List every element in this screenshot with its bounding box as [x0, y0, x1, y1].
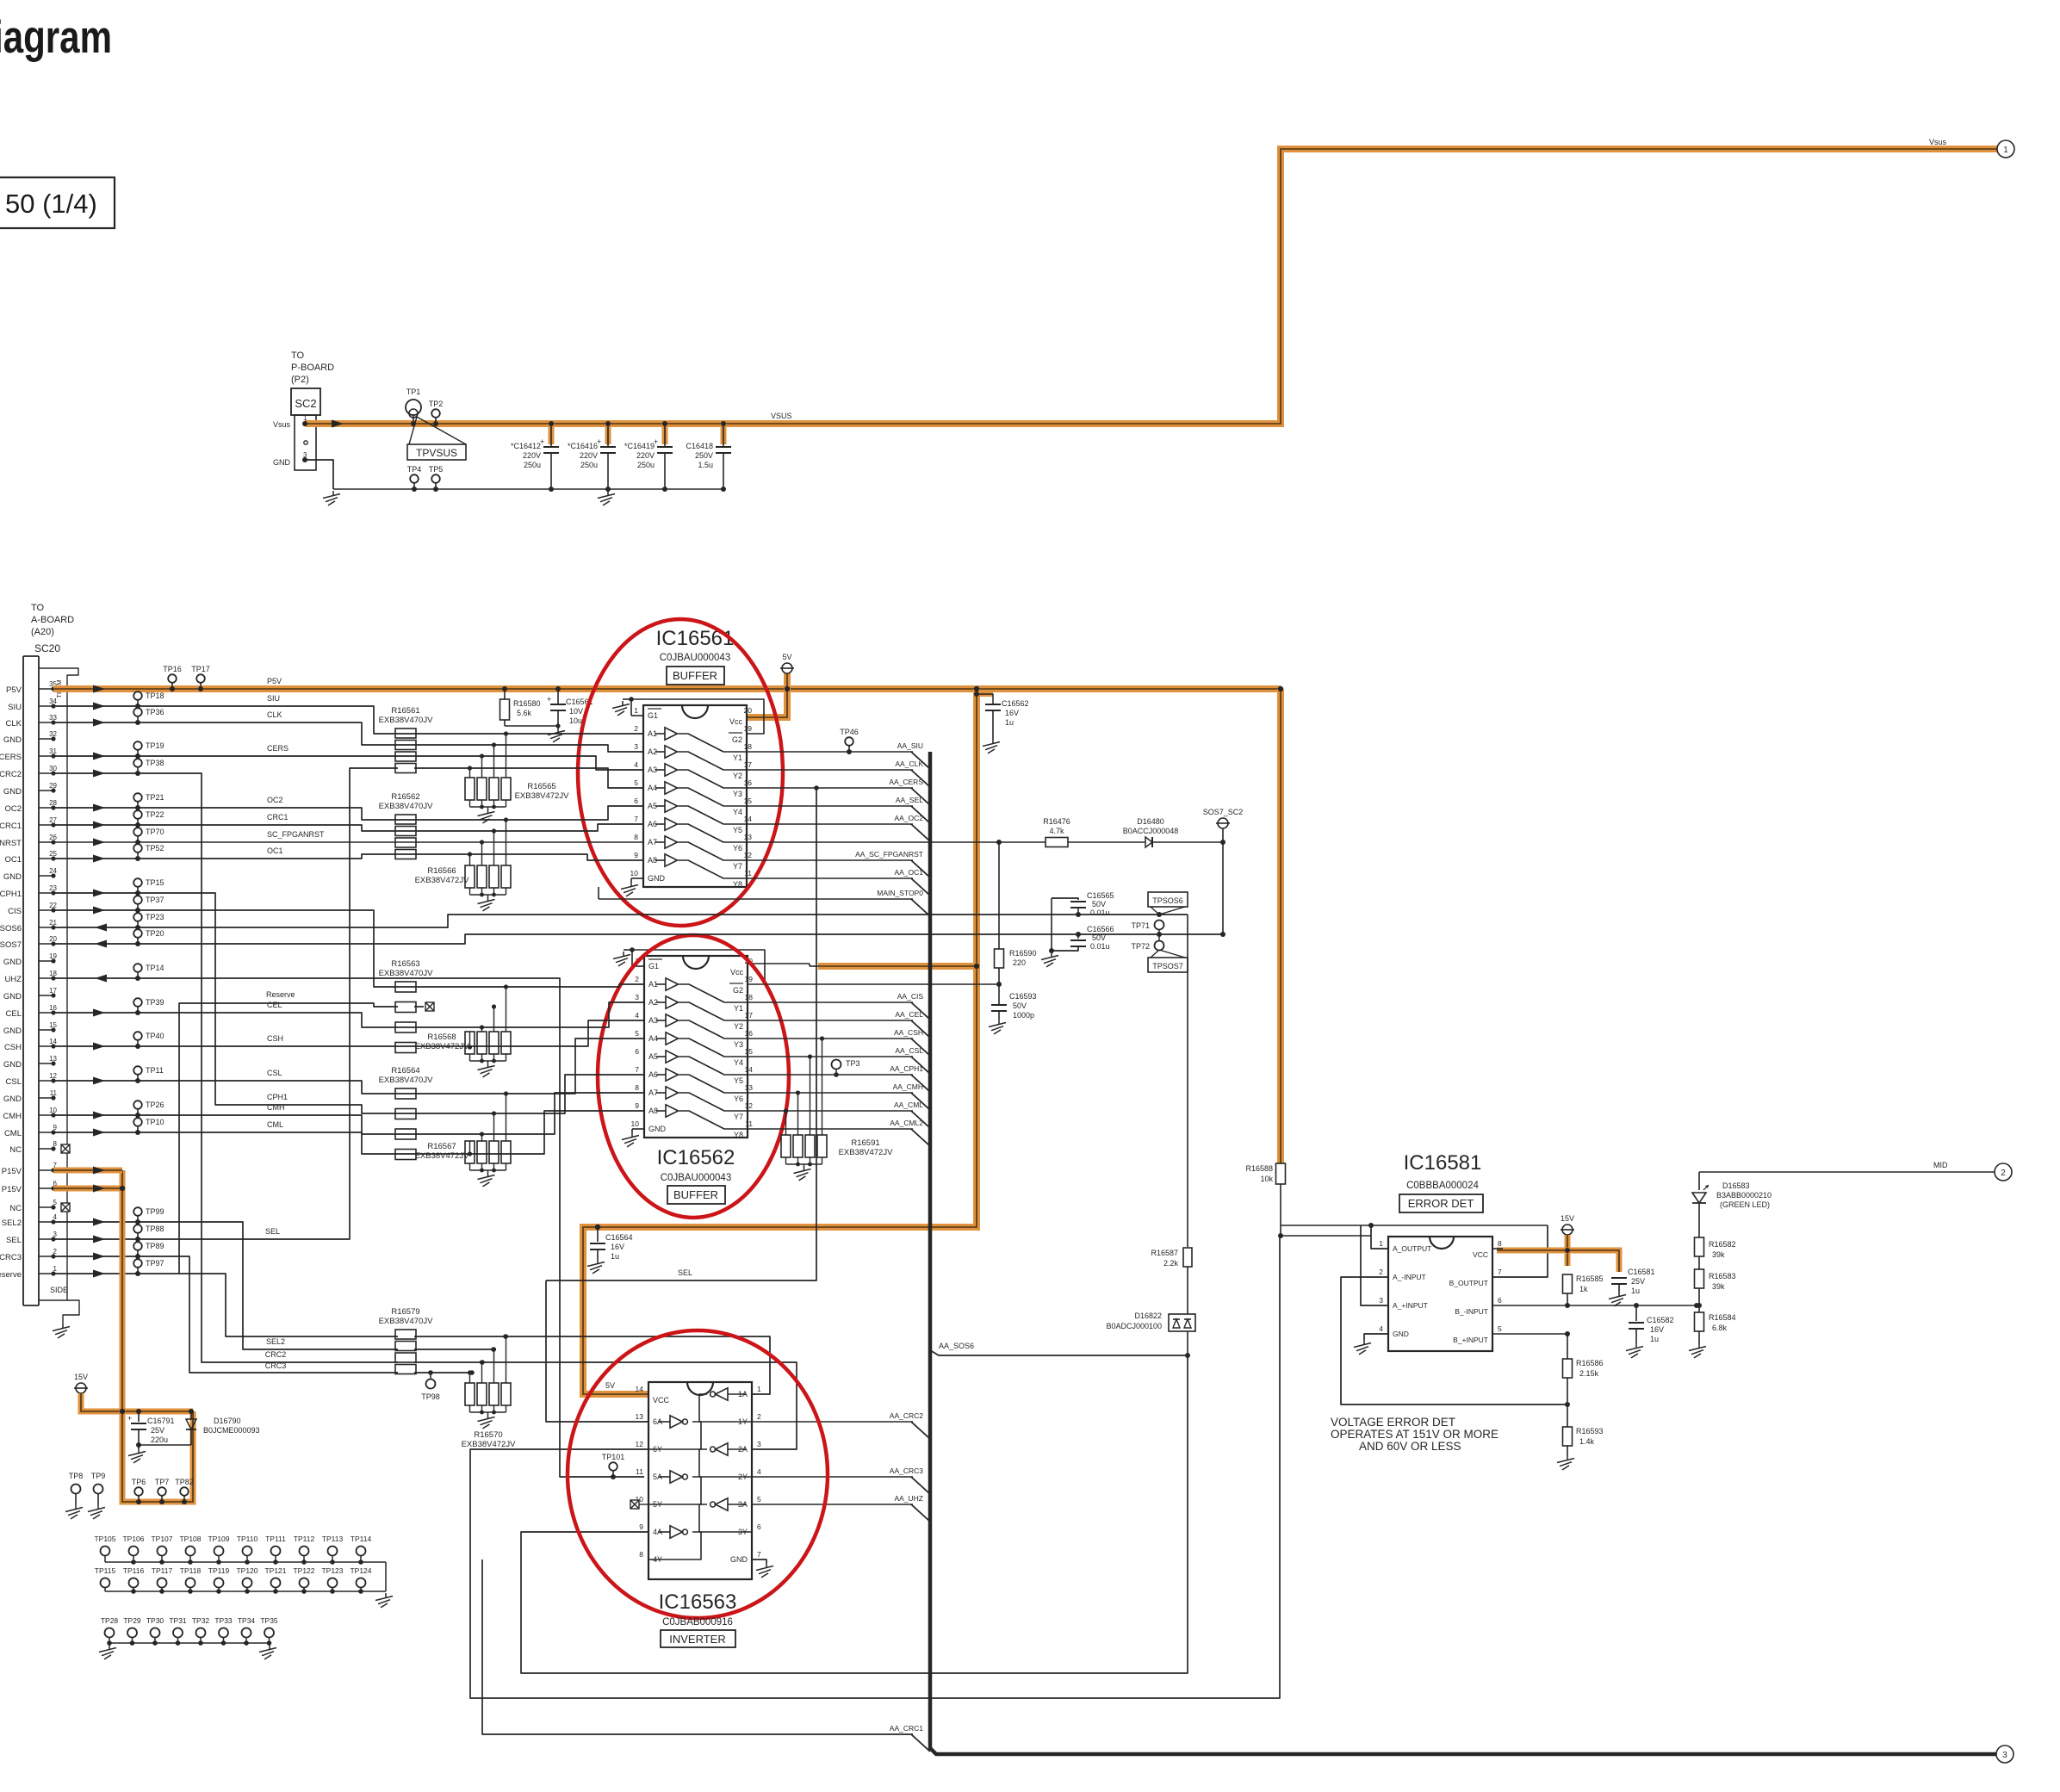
svg-text:CMH: CMH: [3, 1112, 22, 1121]
svg-text:TP112: TP112: [294, 1535, 315, 1543]
svg-text:15: 15: [744, 797, 753, 805]
ground: [62, 1324, 64, 1329]
op-amp IC16562 buffer IC: [644, 956, 748, 1138]
svg-text:CERS: CERS: [0, 753, 22, 762]
svg-text:2: 2: [635, 975, 639, 983]
svg-text:*C16412: *C16412: [511, 442, 541, 450]
svg-text:TPSOS7: TPSOS7: [1152, 962, 1183, 970]
svg-text:+: +: [547, 695, 551, 704]
test point TP2: [431, 409, 440, 418]
svg-text:(A20): (A20): [31, 627, 54, 637]
svg-text:2.15k: 2.15k: [1579, 1369, 1599, 1378]
svg-text:TP72: TP72: [1131, 942, 1150, 951]
wire bottom join: [139, 1444, 191, 1446]
svg-text:Y6: Y6: [734, 1094, 743, 1103]
wire to IC16581: [1281, 1235, 1371, 1237]
svg-text:R16590: R16590: [1009, 949, 1037, 958]
ground IC16563 pin7: [752, 1559, 766, 1563]
resistor array R16566: [465, 865, 475, 888]
svg-text:1: 1: [1379, 1239, 1383, 1248]
svg-text:AA_CERS: AA_CERS: [889, 778, 923, 786]
svg-text:13: 13: [745, 1083, 754, 1092]
svg-text:B_OUTPUT: B_OUTPUT: [1449, 1279, 1488, 1287]
svg-text:CLK: CLK: [6, 719, 22, 729]
X no-connect 5Y: [630, 1500, 639, 1509]
test point TP98: [426, 1380, 436, 1389]
test point TP52: [133, 844, 142, 853]
svg-text:7: 7: [1498, 1268, 1502, 1276]
svg-text:D16822: D16822: [1134, 1311, 1162, 1320]
svg-text:TP109: TP109: [208, 1535, 229, 1543]
svg-text:GND: GND: [3, 735, 22, 745]
svg-text:TP101: TP101: [602, 1453, 625, 1461]
svg-text:5V: 5V: [782, 653, 791, 661]
svg-text:P15V: P15V: [2, 1167, 22, 1176]
svg-text:EXB38V470JV: EXB38V470JV: [379, 1076, 434, 1085]
wire orange vertical to IC16562/IC16563: [583, 689, 977, 1394]
svg-text:CRC1: CRC1: [0, 822, 22, 831]
svg-text:A_OUTPUT: A_OUTPUT: [1393, 1244, 1431, 1253]
svg-text:Y7: Y7: [733, 862, 742, 871]
svg-text:R16586: R16586: [1576, 1359, 1604, 1367]
svg-text:2: 2: [1379, 1268, 1383, 1276]
wire AA_SOS6: [930, 1350, 1187, 1355]
svg-text:GND: GND: [273, 458, 291, 467]
svg-text:*C16416: *C16416: [568, 442, 598, 450]
wire r16588 net down: [470, 1236, 1280, 1698]
svg-text:AA_CPH1: AA_CPH1: [890, 1064, 923, 1073]
svg-text:AA_SEL: AA_SEL: [896, 796, 923, 804]
svg-text:3: 3: [634, 742, 638, 751]
svg-text:TP124: TP124: [350, 1566, 371, 1575]
svg-text:TP39: TP39: [146, 998, 164, 1007]
resistor R16583: [1695, 1269, 1704, 1288]
resistor R16476: [1046, 838, 1068, 847]
connector SC20 body: [22, 656, 24, 1305]
svg-text:TP89: TP89: [146, 1242, 164, 1250]
shape red circle IC16563: [568, 1330, 828, 1618]
svg-text:1: 1: [2003, 146, 2008, 155]
svg-text:1.4k: 1.4k: [1579, 1437, 1595, 1446]
svg-text:AA_OC2: AA_OC2: [894, 814, 923, 822]
shape red ellipse IC16561: [578, 619, 783, 926]
svg-text:TP113: TP113: [322, 1535, 344, 1543]
svg-text:C16566: C16566: [1087, 925, 1114, 933]
svg-text:TP97: TP97: [146, 1259, 164, 1268]
svg-text:MAIN_STOP0: MAIN_STOP0: [877, 889, 923, 897]
wire AA_OC2: [747, 823, 913, 825]
svg-text:R16593: R16593: [1576, 1427, 1604, 1435]
svg-text:SEL: SEL: [678, 1268, 692, 1277]
svg-text:SOS7: SOS7: [0, 940, 22, 950]
svg-text:TP21: TP21: [146, 793, 164, 802]
svg-text:5V: 5V: [605, 1381, 615, 1390]
svg-text:TP9: TP9: [91, 1472, 106, 1480]
wire SOS6: [53, 915, 1188, 927]
svg-text:5.6k: 5.6k: [517, 709, 532, 717]
svg-text:A-BOARD: A-BOARD: [31, 615, 74, 625]
svg-text:TP14: TP14: [146, 964, 164, 972]
resistor array R16570: [465, 1383, 475, 1405]
svg-text:25V: 25V: [151, 1426, 164, 1435]
wire AA_CSH: [748, 1038, 913, 1039]
svg-text:Y5: Y5: [734, 1076, 743, 1085]
capacitor C16791: [136, 1409, 141, 1414]
svg-text:CSH: CSH: [267, 1034, 283, 1043]
svg-text:Y8: Y8: [733, 880, 742, 889]
svg-text:B3ABB0000210: B3ABB0000210: [1716, 1191, 1771, 1200]
svg-text:220: 220: [1013, 958, 1026, 967]
wire MAIN_STOP0 stub: [598, 887, 599, 899]
svg-text:12: 12: [745, 1101, 754, 1110]
svg-text:7: 7: [757, 1550, 761, 1559]
wire IC16561 G1 frame: [631, 699, 764, 734]
wire P15V pins orange: [53, 1168, 122, 1174]
wire G2 frame IC16562 to C16593: [765, 983, 999, 985]
svg-text:R16564: R16564: [391, 1066, 419, 1076]
resistor array R16568: [465, 1032, 475, 1054]
svg-text:250u: 250u: [524, 461, 541, 469]
wire orange right vertical to R16588: [1277, 689, 1284, 1164]
svg-text:R16583: R16583: [1709, 1272, 1736, 1280]
svg-text:TP108: TP108: [179, 1535, 201, 1543]
svg-text:4: 4: [1379, 1324, 1383, 1333]
svg-text:TP30: TP30: [146, 1616, 164, 1625]
capacitor C16416: [605, 424, 611, 444]
svg-text:17: 17: [744, 760, 753, 769]
svg-text:C16791: C16791: [147, 1417, 175, 1425]
svg-text:TP82: TP82: [175, 1478, 194, 1486]
title box: [0, 177, 115, 228]
capacitor C16418: [721, 424, 727, 444]
svg-text:Y2: Y2: [734, 1022, 743, 1031]
test point TP20: [133, 929, 142, 938]
svg-text:AA_SC_FPGANRST: AA_SC_FPGANRST: [855, 850, 923, 859]
svg-text:11: 11: [744, 869, 752, 877]
resistor R16586: [1567, 1334, 1568, 1359]
svg-text:ERROR DET: ERROR DET: [1408, 1197, 1474, 1210]
svg-text:TP6: TP6: [132, 1478, 146, 1486]
wire R16566 stubs: [469, 854, 471, 865]
svg-text:AA_CEL: AA_CEL: [895, 1010, 923, 1019]
svg-text:P5V: P5V: [267, 677, 282, 685]
wire net1 after R16579: [414, 1336, 770, 1394]
svg-text:Vsus: Vsus: [273, 420, 291, 429]
svg-text:CIS: CIS: [8, 907, 22, 916]
resistor R16585: [1563, 1274, 1573, 1293]
wire AA_CRC2: [752, 1421, 913, 1423]
svg-text:2: 2: [634, 724, 638, 733]
diode D16822: [1169, 1314, 1195, 1331]
svg-text:220V: 220V: [580, 451, 598, 460]
resistor R16588: [1276, 1163, 1286, 1184]
test point TP39: [133, 998, 142, 1007]
svg-text:R16567: R16567: [427, 1142, 456, 1151]
svg-text:Vcc: Vcc: [730, 968, 744, 977]
svg-text:R16582: R16582: [1709, 1240, 1736, 1249]
ground: [332, 491, 334, 496]
svg-text:G2: G2: [732, 735, 742, 744]
svg-text:TP5: TP5: [429, 465, 444, 474]
svg-text:EXB38V470JV: EXB38V470JV: [379, 969, 434, 978]
inverter IC16563: [648, 1382, 752, 1579]
svg-text:7: 7: [634, 815, 638, 823]
svg-text:GND: GND: [3, 1026, 22, 1036]
svg-text:C0JBAB000916: C0JBAB000916: [662, 1617, 733, 1628]
svg-text:TP38: TP38: [146, 759, 164, 767]
svg-text:15: 15: [745, 1047, 754, 1056]
wire P5V orange rail: [53, 685, 1281, 692]
test point TP16: [168, 674, 177, 683]
svg-text:1.5u: 1.5u: [698, 461, 713, 469]
wire R16565 stubs: [469, 768, 471, 778]
svg-text:MID: MID: [1933, 1161, 1948, 1169]
svg-text:B0ACCJ000048: B0ACCJ000048: [1123, 827, 1179, 835]
test point TP1: [406, 400, 421, 415]
svg-text:VCC: VCC: [1473, 1250, 1488, 1259]
svg-text:CMH: CMH: [267, 1103, 285, 1112]
wire orange to IC16562 vcc: [818, 963, 977, 970]
svg-text:AA_CML2: AA_CML2: [890, 1119, 923, 1127]
test point TP15: [133, 878, 142, 887]
capacitor C16564: [597, 1227, 599, 1242]
svg-text:CPH1: CPH1: [267, 1093, 288, 1101]
capacitor C16566: [1076, 932, 1081, 937]
svg-text:13: 13: [636, 1412, 644, 1421]
test point TP70: [133, 828, 142, 836]
svg-text:CRC1: CRC1: [267, 813, 289, 822]
test point TP11: [133, 1066, 142, 1075]
wire 5V to IC16561 Vcc: [747, 673, 787, 717]
svg-text:39k: 39k: [1712, 1250, 1725, 1259]
svg-text:TP22: TP22: [146, 810, 164, 819]
diode D16480: [1145, 837, 1152, 847]
svg-text:3: 3: [1379, 1296, 1383, 1305]
svg-text:25V: 25V: [1631, 1277, 1645, 1286]
svg-text:R16587: R16587: [1151, 1249, 1178, 1257]
svg-text:R16588: R16588: [1245, 1164, 1273, 1173]
wire AA_CLK: [747, 769, 913, 771]
capacitor C16562: [977, 691, 993, 697]
svg-text:TP1: TP1: [406, 388, 421, 396]
test point TP21: [133, 793, 142, 802]
svg-text:9: 9: [639, 1522, 643, 1531]
svg-text:18: 18: [745, 993, 754, 1001]
wire CRC2 riser: [53, 773, 398, 1362]
wire MID: [1699, 1171, 1995, 1173]
test point TP18: [133, 691, 142, 700]
svg-text:AND 60V OR LESS: AND 60V OR LESS: [1359, 1440, 1461, 1453]
svg-text:6: 6: [757, 1522, 761, 1531]
wire AA_SEL: [747, 805, 913, 807]
inverter internals right: [716, 1388, 728, 1400]
svg-text:5: 5: [1498, 1324, 1502, 1333]
svg-text:C0JBAU000043: C0JBAU000043: [660, 653, 730, 663]
svg-text:4: 4: [634, 760, 638, 769]
svg-text:10V: 10V: [569, 707, 583, 716]
svg-text:TP70: TP70: [146, 828, 164, 836]
svg-text:7: 7: [635, 1065, 639, 1074]
svg-text:16V: 16V: [1650, 1325, 1664, 1334]
svg-text:20: 20: [744, 706, 753, 715]
svg-text:50 (1/4): 50 (1/4): [5, 189, 97, 219]
svg-text:TP52: TP52: [146, 844, 164, 853]
svg-text:Y5: Y5: [733, 826, 742, 834]
svg-text:Y4: Y4: [733, 808, 742, 816]
svg-text:12: 12: [744, 851, 753, 859]
test point TP4: [410, 474, 419, 483]
capacitor C16582: [1635, 1305, 1637, 1321]
power 15V left: [76, 1383, 86, 1393]
svg-text:SOS7_SC2: SOS7_SC2: [1203, 808, 1244, 816]
svg-text:220V: 220V: [636, 451, 655, 460]
svg-text:Reserve: Reserve: [266, 990, 295, 999]
svg-text:AA_OC1: AA_OC1: [894, 868, 923, 877]
svg-text:*C16419: *C16419: [624, 442, 655, 450]
svg-text:11: 11: [745, 1119, 753, 1128]
svg-text:2.2k: 2.2k: [1163, 1259, 1179, 1268]
svg-text:AA_CRC3: AA_CRC3: [890, 1466, 923, 1475]
resistor array R16591: [781, 1135, 791, 1157]
svg-text:Y3: Y3: [734, 1040, 743, 1049]
svg-text:EXB38V470JV: EXB38V470JV: [379, 716, 434, 725]
power 15V: [1562, 1225, 1573, 1235]
resistor array R16565: [465, 778, 475, 800]
wire AA_CSL: [748, 1056, 913, 1057]
svg-text:1u: 1u: [1005, 718, 1014, 727]
wire AA_SIU: [747, 751, 913, 753]
capacitor C16561: [555, 686, 561, 691]
svg-text:TP117: TP117: [152, 1566, 173, 1575]
svg-text:TP99: TP99: [146, 1207, 164, 1216]
op-amp IC16561 buffer IC: [643, 705, 747, 887]
svg-text:GND: GND: [3, 1060, 22, 1070]
capacitor C16593: [998, 984, 1000, 1004]
svg-text:50V: 50V: [1092, 900, 1106, 908]
svg-text:G1: G1: [648, 711, 658, 720]
svg-text:EXB38V472JV: EXB38V472JV: [462, 1440, 517, 1449]
svg-text:250u: 250u: [580, 461, 598, 469]
svg-text:R16580: R16580: [513, 699, 541, 708]
test point TP22: [133, 810, 142, 819]
svg-text:R16563: R16563: [391, 959, 419, 969]
svg-text:AA_UHZ: AA_UHZ: [894, 1494, 923, 1503]
svg-text:TP11: TP11: [146, 1066, 164, 1075]
wire arrow: [332, 420, 344, 428]
svg-text:R16584: R16584: [1709, 1313, 1736, 1322]
wire CRC2 after R16579: [414, 1362, 797, 1449]
svg-text:CERS: CERS: [267, 744, 289, 753]
svg-text:SEL2: SEL2: [266, 1337, 285, 1346]
test point TP99: [133, 1207, 142, 1216]
svg-text:8: 8: [1498, 1239, 1502, 1248]
svg-text:1u: 1u: [611, 1252, 619, 1261]
svg-text:11: 11: [636, 1467, 643, 1476]
svg-text:TP28: TP28: [101, 1616, 119, 1625]
svg-text:50V: 50V: [1013, 1001, 1027, 1010]
test point TP40: [133, 1032, 142, 1040]
svg-text:4: 4: [757, 1467, 761, 1476]
flag TPVSUS: [409, 417, 417, 444]
svg-text:8: 8: [635, 1083, 639, 1092]
svg-text:5: 5: [757, 1495, 761, 1504]
svg-text:OC2: OC2: [267, 796, 283, 804]
svg-text:Vsus: Vsus: [1929, 138, 1947, 146]
diode D16790: [189, 1409, 194, 1414]
LED D16583: [1698, 1172, 1700, 1190]
svg-text:TP105: TP105: [94, 1535, 115, 1543]
svg-text:CML: CML: [267, 1120, 283, 1129]
wire SOS7 link: [1222, 842, 1224, 934]
wire IC16562 G1 frame: [632, 950, 765, 984]
wire MAIN_STOP0: [599, 898, 913, 900]
svg-text:1u: 1u: [1631, 1287, 1640, 1295]
svg-text:B_-INPUT: B_-INPUT: [1455, 1307, 1488, 1316]
svg-text:6.8k: 6.8k: [1712, 1324, 1728, 1332]
svg-text:10: 10: [631, 1119, 640, 1128]
resistor R16590: [998, 842, 1000, 949]
svg-text:TP40: TP40: [146, 1032, 164, 1040]
wire AA_CRC1: [482, 1559, 913, 1734]
wire AA_CMH: [748, 1092, 913, 1094]
svg-text:19: 19: [744, 724, 753, 733]
svg-text:TPSOS6: TPSOS6: [1152, 896, 1183, 905]
test point TP3: [832, 1060, 841, 1070]
wire AA_OC1: [747, 877, 913, 879]
svg-text:CRC3: CRC3: [265, 1361, 287, 1370]
wire Y6 net to SOS7_SC2: [747, 841, 1223, 843]
svg-text:9: 9: [635, 1101, 639, 1110]
svg-text:AA_SOS6: AA_SOS6: [939, 1342, 974, 1350]
svg-text:SEL2: SEL2: [2, 1218, 22, 1228]
svg-text:NC: NC: [9, 1204, 22, 1213]
svg-text:1k: 1k: [1579, 1285, 1588, 1293]
svg-text:INVERTER: INVERTER: [669, 1633, 726, 1646]
test point TP71: [1155, 921, 1164, 930]
svg-text:CSH: CSH: [4, 1043, 22, 1052]
ground: [385, 1593, 387, 1598]
wire AA_CERS: [747, 787, 913, 789]
svg-text:TP88: TP88: [146, 1225, 164, 1233]
node terminal 3: [1996, 1745, 2013, 1763]
svg-text:TP4: TP4: [407, 465, 422, 474]
svg-text:TP46: TP46: [840, 728, 859, 736]
test point TP19: [133, 741, 142, 750]
svg-text:+: +: [127, 1414, 132, 1423]
svg-text:TP118: TP118: [180, 1566, 202, 1575]
svg-text:0.01u: 0.01u: [1090, 908, 1110, 917]
svg-text:AA_CLK: AA_CLK: [895, 760, 923, 768]
svg-text:NRST: NRST: [0, 839, 22, 848]
svg-text:16V: 16V: [611, 1243, 624, 1251]
svg-text:TP119: TP119: [208, 1566, 230, 1575]
svg-text:TP111: TP111: [265, 1535, 286, 1543]
wire 15V orange: [81, 1393, 193, 1411]
svg-text:2: 2: [2001, 1169, 2006, 1178]
svg-text:CEL: CEL: [6, 1009, 22, 1019]
svg-text:TP2: TP2: [429, 400, 444, 408]
svg-text:SC_FPGANRST: SC_FPGANRST: [267, 830, 325, 839]
svg-text:GND: GND: [730, 1555, 748, 1564]
svg-text:GND: GND: [3, 872, 22, 882]
svg-text:1000p: 1000p: [1013, 1011, 1034, 1020]
svg-text:1: 1: [634, 706, 638, 715]
wire AA_SC_FPGANRST: [747, 859, 913, 861]
svg-text:TP121: TP121: [264, 1566, 286, 1575]
svg-text:5: 5: [635, 1029, 639, 1038]
svg-text:TP114: TP114: [351, 1535, 372, 1543]
wire SC2 gnd: [302, 457, 307, 462]
